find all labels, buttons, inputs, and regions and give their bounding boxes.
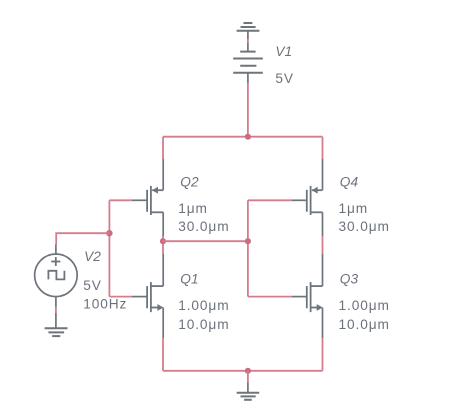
wire GND rail (horizontal) — [163, 370, 323, 372]
battery V1 — [233, 31, 263, 83]
node GND junction — [245, 368, 251, 374]
wire V1 positive to VDD rail — [247, 83, 249, 137]
svg-text:1μm: 1μm — [178, 201, 208, 216]
svg-text:V1: V1 — [275, 44, 292, 59]
transistor Q2 (PMOS) — [132, 159, 163, 236]
wire IN1 vertical (to Q2/Q1 gates) — [108, 200, 110, 296]
svg-text:Q1: Q1 — [180, 271, 198, 286]
ground GND2 (bottom center) — [237, 382, 260, 400]
svg-text:1.00μm: 1.00μm — [339, 298, 390, 313]
wire IN2 to Q4 gate — [248, 199, 292, 201]
wire V1 ground pin to battery top pin — [247, 39, 249, 42]
node VDD junction — [245, 134, 251, 140]
svg-text:Q3: Q3 — [340, 271, 359, 286]
svg-text:10.0μm: 10.0μm — [178, 317, 229, 332]
svg-text:30.0μm: 30.0μm — [178, 219, 229, 234]
svg-text:V2: V2 — [84, 249, 101, 264]
wire IN2 to Q3 gate — [248, 296, 292, 298]
node OUT1 junction — [160, 238, 166, 244]
svg-text:Q4: Q4 — [340, 175, 359, 190]
wire VDD rail to Q4 source — [322, 137, 324, 159]
svg-text:1μm: 1μm — [339, 201, 369, 216]
wire V2 to node IN1 — [56, 233, 109, 244]
wire Q1 source to GND rail — [162, 338, 164, 371]
svg-text:10.0μm: 10.0μm — [339, 317, 390, 332]
wire IN2 vertical (to Q4/Q3 gates) — [247, 200, 249, 296]
wire IN1 to Q2 gate — [109, 199, 131, 201]
wire Q4 drain to Q3 drain — [322, 236, 324, 254]
wire VDD rail (horizontal) — [163, 136, 323, 138]
svg-text:5V: 5V — [83, 278, 102, 293]
transistor Q3 (NMOS) — [292, 254, 323, 338]
wire IN1 to Q1 gate — [109, 296, 131, 298]
transistor Q4 (PMOS) — [292, 159, 323, 236]
svg-text:1.00μm: 1.00μm — [178, 298, 229, 313]
svg-text:Q2: Q2 — [180, 175, 199, 190]
wire Q3 source to GND rail — [322, 338, 324, 371]
transistor Q1 (NMOS) — [132, 254, 164, 338]
wire V2 negative to ground — [55, 307, 57, 313]
ground GND3 (at V2) — [45, 313, 68, 336]
node IN1 junction — [106, 230, 112, 236]
svg-text:100Hz: 100Hz — [83, 297, 127, 312]
ground GND1 (top, at V1) — [237, 23, 260, 31]
svg-text:5V: 5V — [275, 71, 294, 86]
svg-text:30.0μm: 30.0μm — [339, 219, 390, 234]
wire GND rail to ground — [247, 371, 249, 383]
source V2 (square wave) — [35, 244, 78, 307]
wire Q2 drain to node OUT1 — [162, 236, 164, 254]
wire OUT1 to IN2 (horizontal) — [163, 240, 248, 242]
wire VDD rail to Q2 source — [162, 137, 164, 159]
node IN2 junction — [245, 238, 251, 244]
